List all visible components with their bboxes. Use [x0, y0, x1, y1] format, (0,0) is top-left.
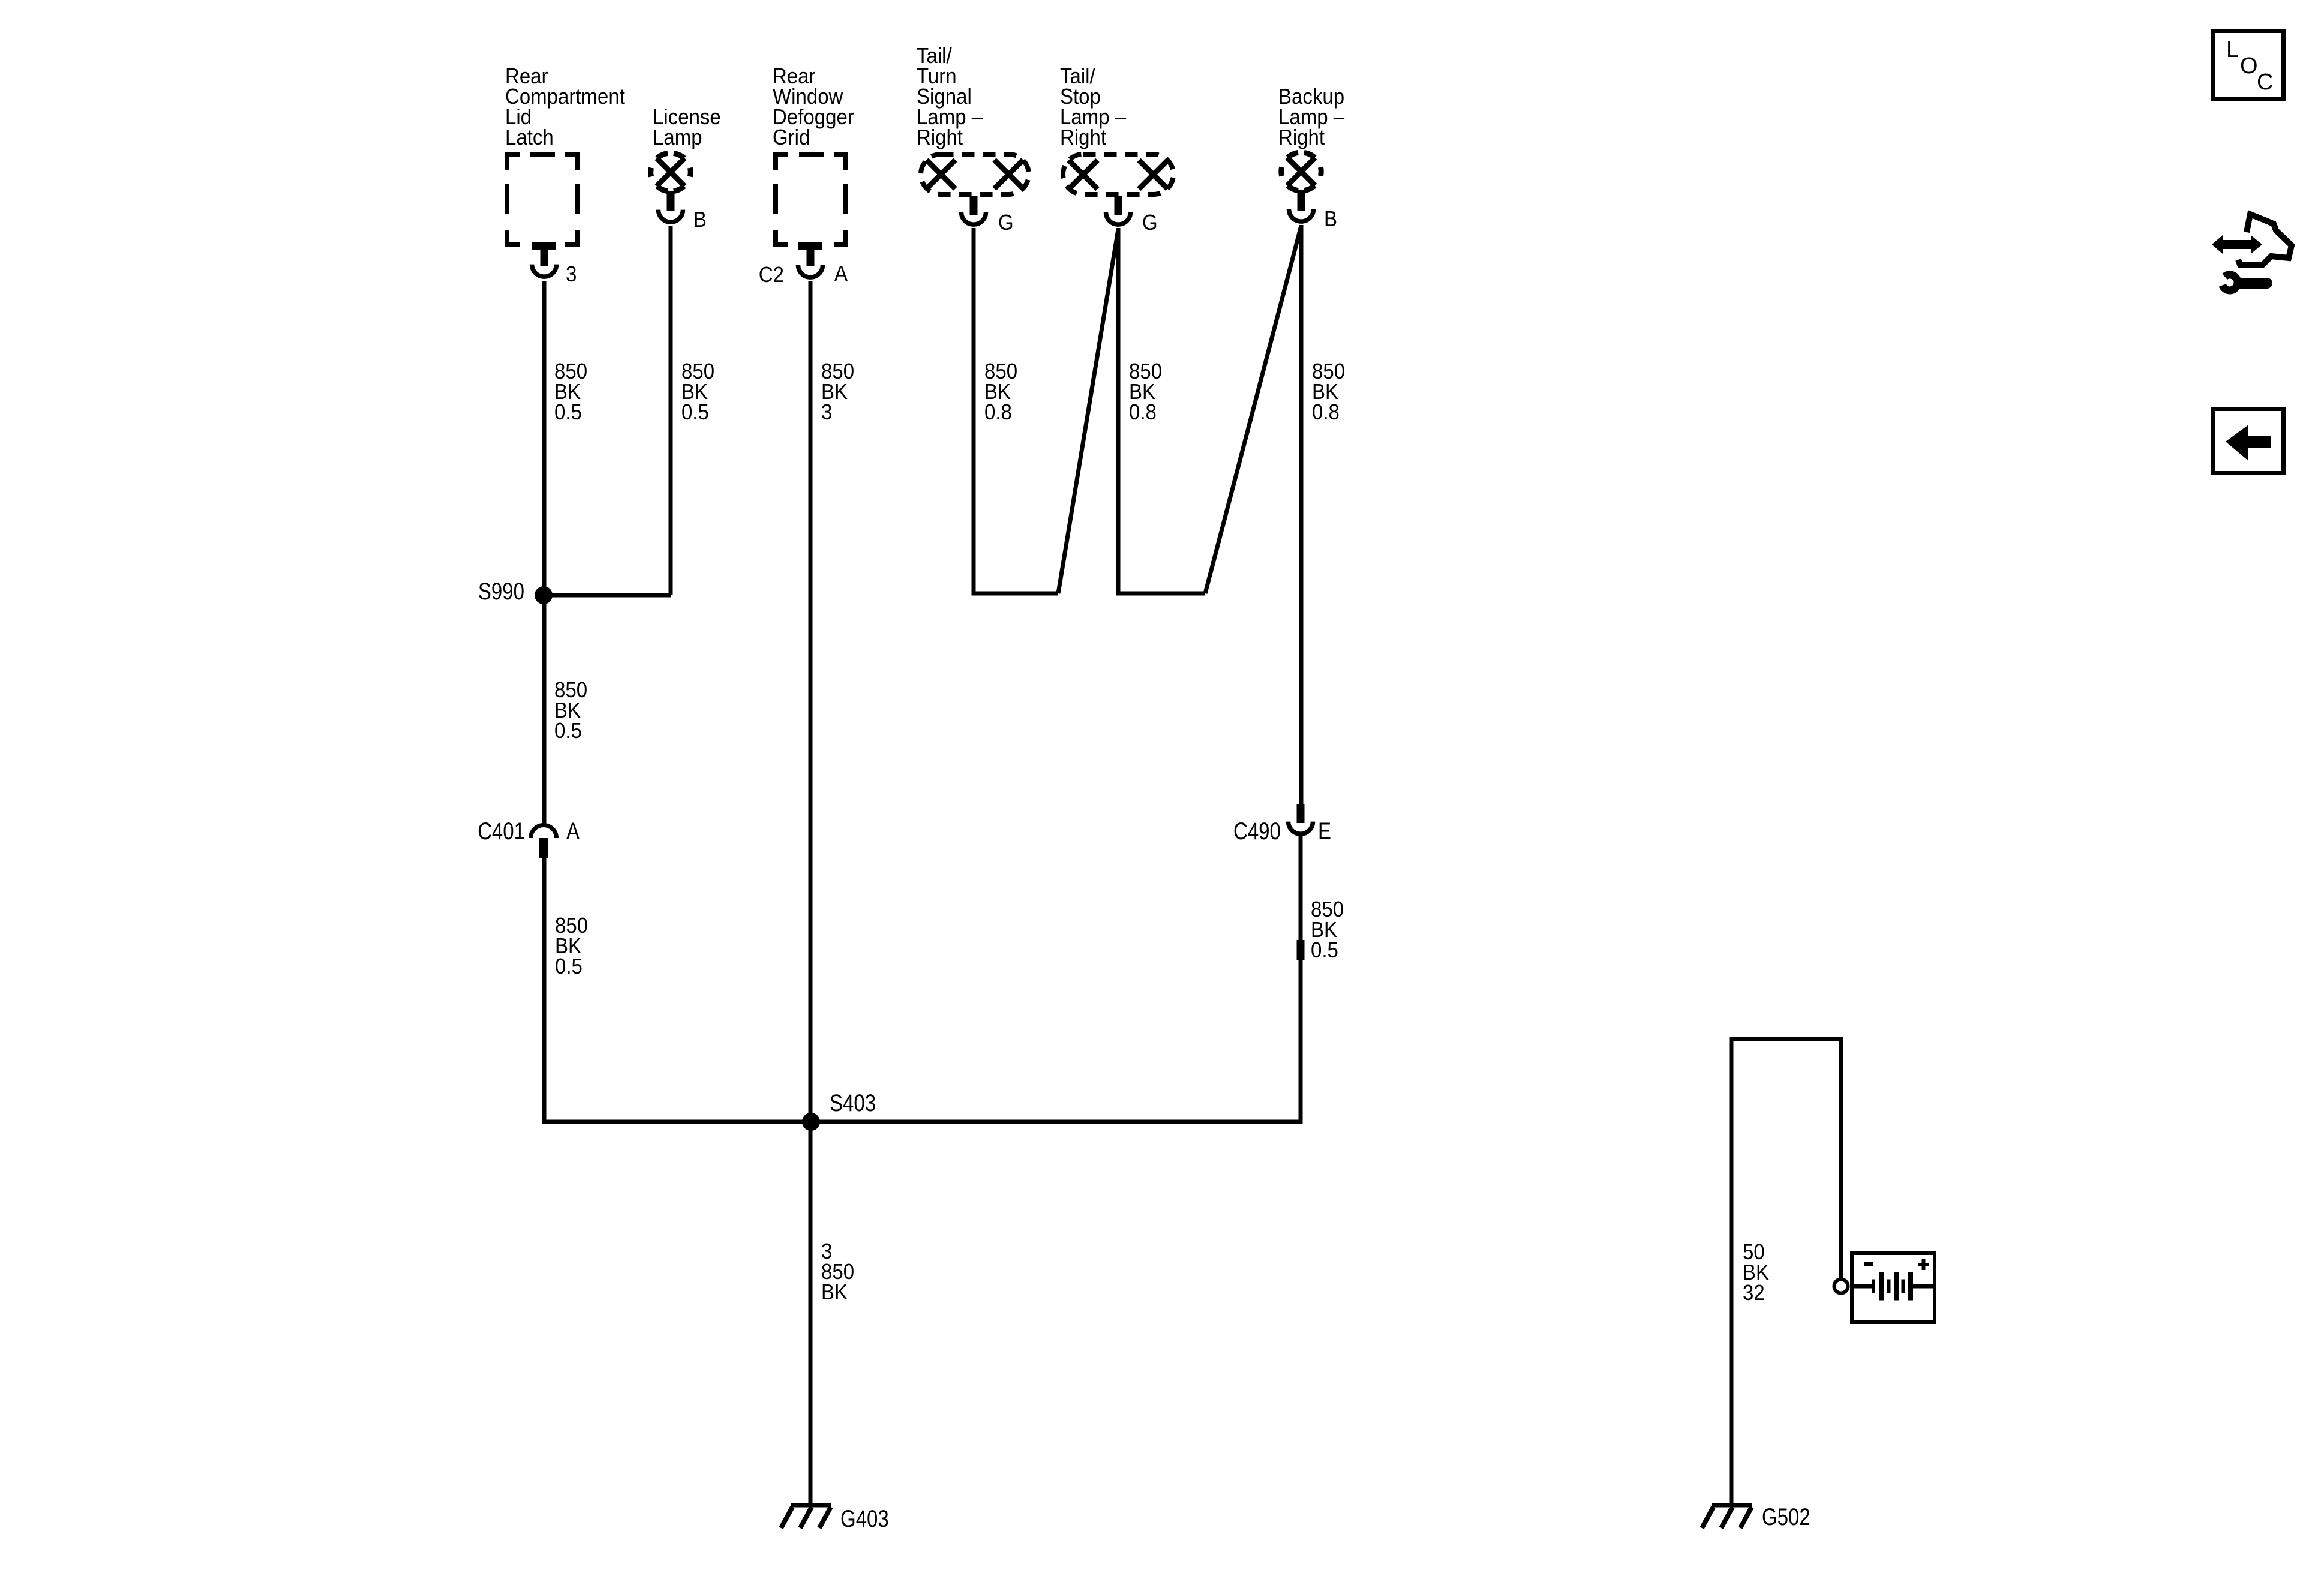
tail/stop lamp - right (dashed capsule housing): [1063, 154, 1173, 194]
svg-text:C: C: [2257, 70, 2273, 95]
wire: tail/stop pin G down and right: [1118, 228, 1205, 593]
wire: G502 riser and top run to battery: [1731, 1039, 1841, 1505]
defogger pin terminal (male blade): [798, 242, 822, 266]
wire label 850 BK 0.8: [984, 359, 1017, 424]
license lamp (bulb symbol): [651, 153, 690, 191]
ring terminal at battery negative: [1834, 1280, 1848, 1293]
rear compartment lid latch (dashed box): [505, 152, 580, 247]
svg-text:3: 3: [566, 262, 577, 286]
svg-text:0.5: 0.5: [554, 718, 582, 743]
connector C401 terminal blade: [539, 838, 548, 858]
latch pin terminal (male blade): [532, 242, 556, 266]
label: Rear Compartment Lid Latch: [505, 64, 625, 149]
battery G (box): [1852, 1253, 1935, 1322]
wire: S990 down to C401: [542, 595, 547, 824]
svg-text:C490: C490: [1233, 818, 1281, 845]
svg-text:O: O: [2240, 53, 2258, 79]
svg-text:A: A: [834, 261, 848, 286]
rear window defogger grid (dashed box): [773, 152, 848, 247]
wire: S990 horizontal branch to license lamp wire: [544, 593, 671, 598]
svg-text:B: B: [693, 207, 707, 232]
ground G403 symbol: [781, 1505, 831, 1528]
svg-text:L: L: [2226, 37, 2239, 62]
label: Rear Window Defogger Grid: [773, 64, 854, 149]
battery positive sign: [1918, 1259, 1929, 1270]
svg-text:Latch: Latch: [505, 125, 554, 149]
wire: defogger pin A down through S403 to G403: [809, 281, 813, 1505]
svg-text:Right: Right: [917, 125, 963, 149]
icon: LOC box: [2213, 31, 2284, 99]
tail/stop lamp filament X (right): [1139, 160, 1168, 189]
wire label 3 850 BK (below S403): [821, 1239, 854, 1304]
latch connector cavity (pin 3): [532, 265, 557, 277]
label: License Lamp: [653, 104, 721, 149]
wire: tail/turn pin G down and right: [974, 228, 1058, 593]
wire: latch pin 3 down to S990: [542, 281, 547, 595]
tail/stop terminal blade: [1115, 196, 1122, 215]
tail/turn connector cavity (pin G): [962, 212, 986, 224]
backup lamp terminal blade: [1298, 190, 1305, 211]
svg-text:A: A: [566, 818, 580, 845]
svg-text:Right: Right: [1278, 125, 1325, 149]
svg-text:G502: G502: [1762, 1504, 1810, 1530]
svg-text:0.5: 0.5: [555, 954, 582, 978]
svg-text:Grid: Grid: [773, 125, 810, 149]
svg-text:0.8: 0.8: [1312, 400, 1340, 424]
svg-text:Right: Right: [1060, 125, 1106, 149]
svg-text:S990: S990: [478, 578, 524, 605]
tail/stop connector cavity (pin G): [1106, 212, 1131, 224]
svg-text:S403: S403: [830, 1090, 876, 1116]
svg-text:G: G: [1142, 210, 1158, 235]
svg-text:C2: C2: [759, 262, 784, 287]
wire: S403 horizontal bus: [544, 1120, 1301, 1124]
defogger connector cavity (pin A of C2): [798, 265, 823, 278]
svg-text:0.5: 0.5: [554, 400, 582, 424]
wire label 850 BK 0.5: [554, 359, 587, 424]
svg-text:C401: C401: [478, 818, 525, 845]
icon: back arrow box: [2213, 409, 2284, 473]
wire label 850 BK 0.5: [554, 677, 587, 743]
wire label 850 BK 0.8: [1312, 359, 1345, 424]
license lamp connector cavity (pin B): [659, 210, 683, 222]
tail/turn terminal blade: [970, 196, 978, 215]
svg-text:3: 3: [821, 400, 832, 424]
wire (diagonal up to backup pin B): [1205, 226, 1301, 593]
in-line terminal blade on wire: [1297, 940, 1305, 960]
backup lamp connector cavity (pin B): [1289, 209, 1314, 221]
backup lamp (bulb symbol): [1281, 152, 1321, 190]
wire label 850 BK 3: [821, 359, 854, 424]
wire label 850 BK 0.8: [1129, 359, 1162, 424]
svg-text:B: B: [1324, 206, 1337, 231]
tail/turn lamp filament X (left): [927, 160, 956, 189]
connector C490 terminal blade: [1297, 804, 1305, 823]
svg-text:Lamp: Lamp: [653, 125, 702, 149]
wire label 850 BK 0.5: [681, 359, 714, 424]
wire: license lamp pin B down to S990 branch: [669, 226, 673, 595]
ground G502 symbol: [1702, 1505, 1752, 1528]
wire (diagonal up to tail/stop pin G): [1058, 229, 1118, 593]
wire: C401 down to S403: [542, 858, 547, 1124]
svg-text:BK: BK: [821, 1280, 848, 1304]
svg-text:0.8: 0.8: [984, 400, 1012, 424]
tail/turn lamp filament X (right): [995, 160, 1023, 189]
battery cell plates: [1854, 1272, 1933, 1301]
svg-text:32: 32: [1743, 1280, 1765, 1305]
svg-text:E: E: [1318, 818, 1331, 845]
tail/turn signal lamp - right (dashed capsule housing): [921, 154, 1029, 194]
svg-text:G: G: [998, 210, 1014, 235]
wire: backup pin B down to C490: [1299, 225, 1304, 804]
splice S403 (junction dot): [802, 1113, 820, 1131]
connector C401 (in-line, cavity dome): [531, 825, 557, 839]
wire: C490 down to S403: [1299, 836, 1303, 1124]
svg-text:0.5: 0.5: [1311, 938, 1338, 962]
label: Tail/Stop Lamp - Right: [1060, 64, 1127, 149]
wire label 850 BK 0.5: [555, 913, 588, 978]
svg-text:0.8: 0.8: [1129, 400, 1157, 424]
svg-text:G403: G403: [840, 1506, 889, 1532]
connector C490 (cavity cup, pin E): [1289, 822, 1313, 834]
battery negative sign: [1864, 1262, 1873, 1266]
icon: component view (double arrow, outline, wrench): [2212, 214, 2292, 290]
label: Backup Lamp - Right: [1278, 84, 1345, 149]
tail/stop lamp filament X (left): [1069, 160, 1098, 189]
svg-text:0.5: 0.5: [681, 400, 709, 424]
wire label 50 BK 32: [1743, 1239, 1769, 1305]
license lamp terminal blade: [667, 191, 675, 211]
label: Tail/Turn Signal Lamp - Right: [917, 43, 983, 149]
splice S990 (junction dot): [535, 586, 553, 604]
wire label 850 BK 0.5: [1311, 897, 1344, 962]
